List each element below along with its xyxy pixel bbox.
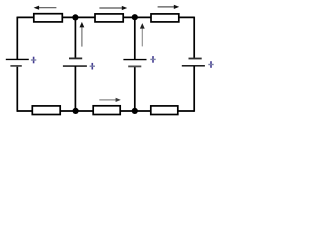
wire right branch lower: [193, 66, 195, 112]
resistor R5: [93, 106, 120, 115]
wire branch 3 lower: [134, 66, 136, 111]
wire left branch upper: [16, 17, 18, 60]
wire right branch upper: [193, 17, 195, 59]
current arrow I3 (right, above R3): [158, 5, 180, 9]
current arrow I4 (right, above R5, gray): [99, 98, 121, 102]
wire top rail: [17, 16, 194, 18]
wire branch 2 upper: [74, 17, 76, 58]
node A junction dot top-left: [72, 14, 78, 20]
wire left branch lower: [16, 66, 18, 112]
node B junction dot top-right: [132, 14, 138, 20]
node C junction dot bottom-left: [73, 108, 79, 114]
resistor R1: [34, 14, 63, 22]
node D junction dot bottom-right: [132, 108, 138, 114]
V4 plus label: [208, 61, 213, 68]
current arrow I1 (left, above R1): [34, 6, 57, 10]
V1 plus label: [31, 57, 36, 64]
battery V3: [123, 60, 146, 67]
battery V1: [6, 59, 29, 66]
wire bottom rail: [17, 110, 194, 112]
battery V4: [182, 59, 205, 66]
current arrow I6 (up, branch 3): [140, 23, 145, 46]
battery V2: [63, 58, 87, 66]
wire branch 3 upper: [134, 17, 136, 59]
current arrow I2 (right, above R2): [99, 6, 127, 10]
wire branch 2 lower: [74, 66, 76, 111]
current arrow I5 (up, branch 2): [80, 22, 85, 47]
resistor R6: [151, 106, 178, 115]
resistor R3: [151, 14, 179, 22]
V2 plus label: [90, 63, 95, 70]
V3 plus label: [150, 56, 155, 63]
resistor R2: [95, 14, 123, 22]
resistor R4: [32, 106, 60, 115]
